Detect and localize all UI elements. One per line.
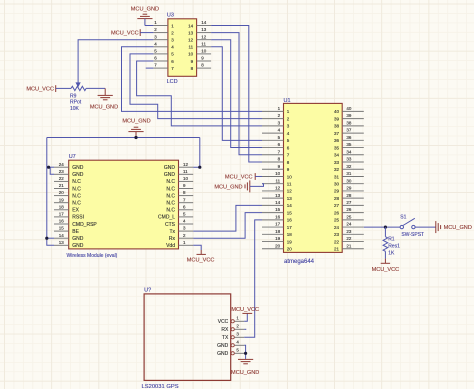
svg-text:14: 14 (188, 23, 194, 28)
svg-text:Rx: Rx (169, 236, 176, 242)
svg-text:24: 24 (59, 162, 65, 167)
svg-text:18: 18 (287, 232, 293, 237)
svg-text:LCD: LCD (167, 79, 178, 85)
svg-text:32: 32 (346, 164, 352, 169)
value label Wireless Module (eval) (67, 253, 118, 259)
svg-text:TX: TX (222, 335, 229, 341)
svg-text:13: 13 (188, 30, 194, 35)
wire LCD pin6 to U1 pin3 (137, 61, 262, 126)
svg-text:11: 11 (183, 169, 188, 174)
svg-text:19: 19 (287, 239, 293, 244)
svg-text:MCU_VCC: MCU_VCC (372, 267, 400, 273)
svg-text:MCU_GND: MCU_GND (444, 225, 472, 231)
junction U7 pin14 (45, 237, 48, 240)
value label LS20031 GPS (142, 384, 179, 389)
wire GPS pin1 to MCU_VCC (244, 313, 247, 321)
svg-text:12: 12 (275, 186, 281, 191)
wire LCD pin14 to U1 pin8 (211, 26, 262, 163)
svg-text:16: 16 (59, 219, 65, 224)
U3 pins 1-7 left stubs and numbers (153, 20, 174, 71)
wire GPS TX pin3 to U1 pin16 (244, 220, 262, 337)
svg-text:17: 17 (59, 212, 65, 217)
wire LCD pin1 to ground (145, 25, 154, 27)
svg-text:33: 33 (346, 157, 352, 162)
svg-text:16: 16 (287, 218, 293, 223)
resistor R9 RPot body (71, 81, 86, 91)
svg-text:MCU_VCC: MCU_VCC (111, 31, 139, 37)
svg-text:27: 27 (334, 203, 340, 208)
wire MCU_VCC to U1 pin10 (255, 175, 262, 177)
junction switch/R1 node (384, 225, 387, 228)
power port MCU_GND top (LCD pin1) (131, 7, 159, 26)
svg-text:R1: R1 (388, 237, 395, 243)
designator U7 (69, 154, 76, 160)
junction at U7 pin12 (198, 166, 201, 169)
svg-text:31: 31 (346, 171, 352, 176)
wire MCU_VCC to LCD pin2 (140, 32, 153, 34)
wire U7 Rx pin2 to U1 pin15 (193, 213, 262, 239)
label R9 (70, 93, 77, 99)
svg-text:21: 21 (346, 243, 352, 248)
power port MCU_GND (right of R9) (90, 88, 118, 110)
resistor R1 body (383, 237, 388, 252)
svg-text:39: 39 (334, 116, 340, 121)
svg-text:U3: U3 (167, 13, 174, 19)
value label LCD (167, 79, 178, 85)
power port MCU_VCC (LCD pin2) (111, 29, 140, 37)
svg-text:GND: GND (72, 165, 84, 171)
svg-text:U?: U? (144, 288, 151, 294)
svg-text:VCC: VCC (218, 319, 229, 325)
power port MCU_VCC (GPS pin1) (231, 307, 259, 313)
svg-text:EX: EX (72, 208, 79, 214)
svg-text:22: 22 (334, 239, 340, 244)
power port MCU_VCC (U7 pin1) (187, 250, 215, 263)
svg-text:20: 20 (287, 247, 293, 252)
svg-text:25: 25 (346, 214, 352, 219)
svg-text:35: 35 (334, 145, 340, 150)
svg-text:atmega644: atmega644 (284, 259, 315, 265)
svg-text:N.C: N.C (72, 179, 81, 185)
svg-text:Wireless Module (eval): Wireless Module (eval) (67, 253, 118, 259)
wire GPS pin2 stub end (244, 328, 246, 330)
svg-text:MCU_GND: MCU_GND (214, 184, 242, 190)
svg-text:MCU_VCC: MCU_VCC (231, 307, 259, 313)
label Res1 (388, 244, 400, 250)
svg-text:38: 38 (346, 120, 352, 125)
svg-text:12: 12 (201, 34, 207, 39)
svg-text:N.C: N.C (166, 186, 175, 192)
wire MCU_GND jog to U1 pin11 (250, 184, 264, 187)
svg-text:10: 10 (183, 176, 189, 181)
svg-text:MCU_VCC: MCU_VCC (26, 87, 54, 93)
U1 pins 1-20 left stubs and numbers (262, 106, 292, 252)
svg-text:N.C: N.C (72, 186, 81, 192)
svg-text:1K: 1K (388, 251, 395, 257)
svg-text:MCU_VCC: MCU_VCC (187, 257, 215, 263)
svg-text:11: 11 (201, 41, 206, 46)
svg-text:24: 24 (334, 225, 340, 230)
svg-text:CMD_L: CMD_L (158, 215, 175, 221)
svg-text:22: 22 (59, 176, 65, 181)
svg-text:24: 24 (346, 222, 352, 227)
IC U3 LCD box (168, 19, 197, 77)
svg-text:14: 14 (201, 20, 207, 25)
wire switch to MCU_GND (415, 226, 435, 228)
svg-text:15: 15 (287, 210, 293, 215)
svg-text:34: 34 (334, 153, 340, 158)
svg-text:19: 19 (59, 197, 65, 202)
svg-text:39: 39 (346, 113, 352, 118)
svg-text:37: 37 (334, 131, 340, 136)
svg-text:GND: GND (164, 165, 176, 171)
svg-text:36: 36 (334, 138, 340, 143)
svg-text:32: 32 (334, 167, 340, 172)
wire U7 pin1 to MCU_VCC (193, 245, 201, 250)
svg-text:13: 13 (201, 27, 207, 32)
svg-text:Tx: Tx (169, 229, 175, 235)
svg-text:10K: 10K (70, 106, 80, 112)
power port MCU_VCC (U1 pin10) (225, 173, 255, 180)
svg-text:GND: GND (72, 243, 84, 249)
svg-text:40: 40 (346, 106, 352, 111)
svg-text:SW-SPST: SW-SPST (401, 232, 424, 238)
svg-text:CTS: CTS (165, 222, 176, 228)
svg-text:14: 14 (275, 200, 281, 205)
svg-text:15: 15 (59, 226, 65, 231)
svg-text:23: 23 (346, 229, 352, 234)
svg-text:11: 11 (276, 178, 281, 183)
wire LCD pin4 to U1 pin1 (122, 47, 263, 112)
wire LCD pin3 to potentiometer wiper (78, 40, 153, 81)
svg-text:17: 17 (275, 222, 281, 227)
U7 pins 24-13 left stubs, numbers, names (54, 162, 97, 249)
svg-text:29: 29 (334, 189, 340, 194)
svg-text:12: 12 (183, 162, 189, 167)
designator U? (144, 288, 151, 294)
wire LCD pin5 to U1 pin2 (130, 54, 262, 119)
svg-text:U1: U1 (284, 98, 291, 104)
svg-text:14: 14 (59, 233, 65, 238)
svg-text:GND: GND (72, 236, 84, 242)
svg-text:35: 35 (346, 142, 352, 147)
svg-text:RX: RX (221, 327, 229, 333)
svg-text:25: 25 (334, 218, 340, 223)
svg-text:13: 13 (59, 240, 65, 245)
svg-text:10: 10 (188, 52, 194, 57)
U1 pins 40-21 right stubs and numbers (334, 106, 364, 252)
svg-text:23: 23 (59, 169, 65, 174)
wire LCD pin12 to U1 pin6 (211, 40, 262, 148)
U3 pins 14-8 right stubs and numbers (188, 20, 211, 71)
svg-text:RSSI: RSSI (72, 215, 84, 221)
svg-text:26: 26 (334, 210, 340, 215)
U7 pins 12-1 right stubs, numbers, names (158, 162, 193, 249)
svg-text:33: 33 (334, 160, 340, 165)
svg-text:RPot: RPot (70, 100, 82, 106)
svg-text:28: 28 (346, 193, 352, 198)
svg-text:26: 26 (346, 207, 352, 212)
svg-text:16: 16 (275, 214, 281, 219)
svg-text:MCU_VCC: MCU_VCC (225, 174, 253, 180)
label R1 (388, 237, 395, 243)
svg-text:N.C: N.C (72, 193, 81, 199)
svg-text:10: 10 (275, 171, 281, 176)
wire GPS pins4,5 to ground (244, 345, 245, 359)
svg-text:19: 19 (275, 236, 281, 241)
svg-text:Res1: Res1 (388, 244, 400, 250)
wire MCU_VCC to R9 left lead (56, 87, 71, 89)
power port MCU_VCC (left of R9) (26, 85, 55, 92)
svg-text:GND: GND (164, 172, 176, 178)
wire junction down to R1 (384, 227, 386, 237)
svg-text:37: 37 (346, 128, 352, 133)
power port MCU_VCC (below R1) (372, 259, 400, 273)
wire U1 pin24 to switch S1 (364, 226, 400, 228)
wire ground rail horizontal (47, 137, 200, 139)
svg-text:GND: GND (217, 343, 229, 349)
svg-text:GND: GND (72, 172, 84, 178)
power port MCU_GND (U1 pin11) (214, 180, 249, 192)
svg-text:N.C: N.C (166, 193, 175, 199)
svg-text:GND: GND (217, 351, 229, 357)
svg-text:MCU_GND: MCU_GND (131, 7, 159, 13)
svg-text:LS20031 GPS: LS20031 GPS (142, 384, 179, 389)
IC U7 Wireless Module box (69, 160, 179, 249)
switch S1 SW-SPST (400, 218, 415, 229)
power port MCU_GND (right of S1) (436, 221, 472, 233)
wire R9 right lead to ground (86, 87, 105, 89)
svg-text:23: 23 (334, 232, 340, 237)
designator U1 (284, 98, 291, 104)
label 10K (70, 106, 80, 112)
wire LCD pin7 stub end (146, 67, 154, 69)
svg-text:18: 18 (275, 229, 281, 234)
svg-text:28: 28 (334, 196, 340, 201)
wire ground rail down left to U7 pins 24,23,14,13 (47, 138, 54, 246)
svg-text:21: 21 (334, 247, 340, 252)
svg-text:S1: S1 (400, 215, 406, 221)
svg-text:20: 20 (59, 190, 65, 195)
svg-text:34: 34 (346, 149, 352, 154)
svg-text:BE: BE (72, 229, 79, 235)
power port MCU_GND (above U7, ground rail) (122, 118, 150, 137)
wire U7 Tx pin3 to U1 pin14 (193, 205, 262, 231)
svg-text:18: 18 (59, 204, 65, 209)
svg-text:12: 12 (188, 38, 194, 43)
svg-text:13: 13 (275, 193, 281, 198)
label SW-SPST (401, 232, 424, 238)
junction ground rail / MCU_GND stem (134, 136, 137, 139)
junction U7 pin24/23 (47, 166, 50, 169)
svg-text:MCU_GND: MCU_GND (231, 370, 259, 376)
svg-text:30: 30 (346, 178, 352, 183)
designator U3 (167, 13, 174, 19)
svg-text:20: 20 (275, 243, 281, 248)
svg-text:MCU_GND: MCU_GND (90, 105, 118, 111)
svg-text:29: 29 (346, 186, 352, 191)
svg-text:40: 40 (334, 109, 340, 114)
svg-text:14: 14 (287, 203, 293, 208)
designator S1 (400, 215, 406, 221)
svg-text:27: 27 (346, 200, 352, 205)
svg-text:11: 11 (287, 182, 292, 187)
junction GPS pin5 (244, 352, 247, 355)
wire LCD pin11 to U1 pin5 (211, 47, 262, 141)
wire ground rail down right to U7 pin12 (193, 138, 200, 168)
svg-text:R9: R9 (70, 93, 77, 99)
svg-text:36: 36 (346, 135, 352, 140)
svg-text:10: 10 (287, 174, 293, 179)
label RPot (70, 100, 82, 106)
svg-text:U7: U7 (69, 154, 76, 160)
svg-text:10: 10 (201, 49, 207, 54)
IC U? LS20031 GPS box (144, 294, 231, 381)
IC U1 atmega644 box (284, 103, 343, 252)
svg-text:N.C: N.C (166, 201, 175, 207)
svg-text:21: 21 (59, 183, 65, 188)
svg-text:31: 31 (334, 174, 340, 179)
svg-text:11: 11 (189, 45, 194, 50)
label 1K (388, 251, 395, 257)
svg-text:17: 17 (287, 225, 293, 230)
svg-text:13: 13 (287, 196, 293, 201)
U? pins 1-5 right stubs, circles, numbers, names (217, 315, 244, 357)
svg-text:22: 22 (346, 236, 352, 241)
svg-text:Vdd: Vdd (166, 243, 175, 249)
value label atmega644 (284, 259, 315, 265)
svg-text:N.C: N.C (166, 208, 175, 214)
svg-text:MCU_GND: MCU_GND (122, 118, 150, 124)
wire LCD pin13 to U1 pin7 (211, 33, 262, 155)
wire R1 to MCU_VCC (384, 251, 386, 258)
svg-text:12: 12 (287, 189, 293, 194)
svg-text:30: 30 (334, 182, 340, 187)
svg-text:N.C: N.C (166, 179, 175, 185)
svg-text:N.C: N.C (72, 201, 81, 207)
svg-text:CMD_RSP: CMD_RSP (72, 222, 97, 228)
power port MCU_GND (GPS) (231, 359, 259, 376)
svg-text:38: 38 (334, 124, 340, 129)
svg-text:15: 15 (275, 207, 281, 212)
